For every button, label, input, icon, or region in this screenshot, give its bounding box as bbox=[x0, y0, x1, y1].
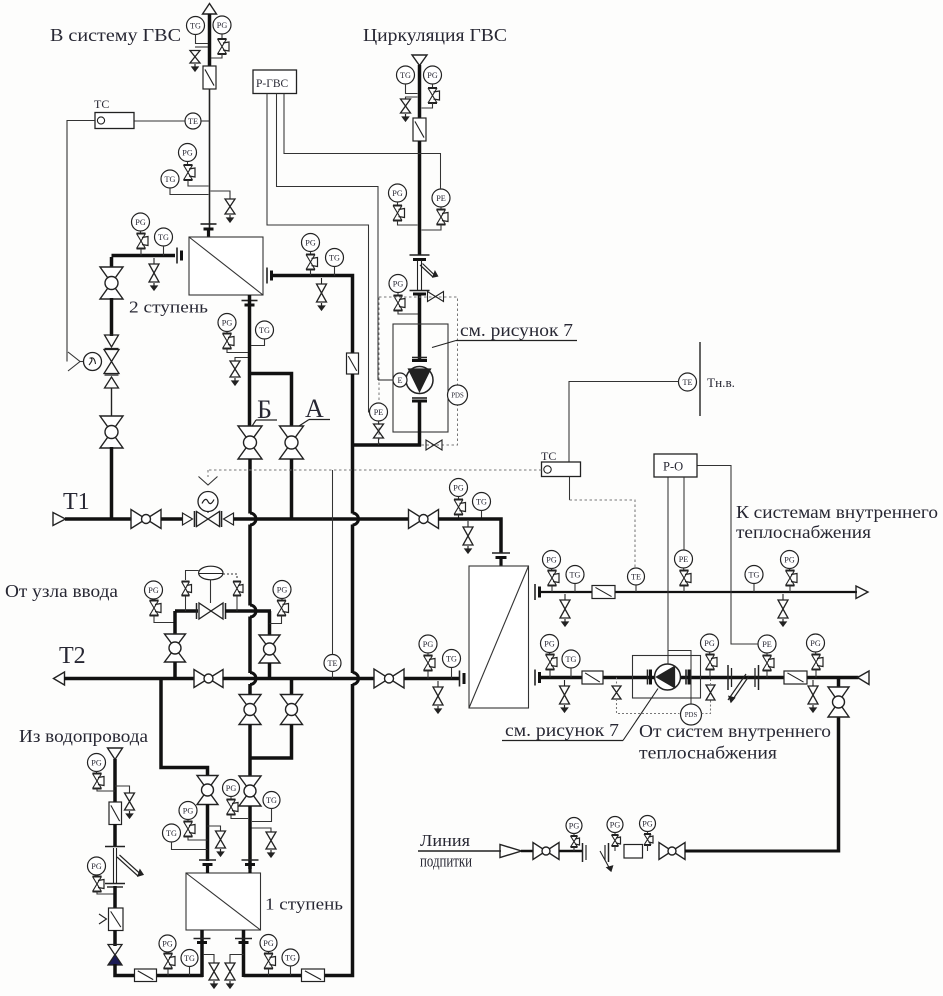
thermometer TG bbox=[155, 228, 173, 246]
heat exchanger U3 bbox=[469, 566, 529, 708]
drain needle valve bbox=[401, 99, 411, 113]
drain branch bbox=[235, 358, 248, 362]
flange of HX2 right port bbox=[267, 268, 272, 284]
wire Р-О to pump bbox=[667, 477, 669, 664]
circulation pump (circle with filled cone) bbox=[406, 367, 433, 394]
wire TC left and down to regulator bbox=[67, 121, 95, 362]
svg-text:1 ступень: 1 ступень bbox=[265, 895, 343, 914]
pressure sensor PE bbox=[432, 189, 450, 207]
pipe: GVS supply riser upper (thick) bbox=[208, 14, 212, 67]
filter on bottom header right bbox=[302, 969, 325, 982]
valve Б bbox=[238, 426, 262, 459]
pressure sensor PE bbox=[758, 635, 776, 653]
wire TE to riser bbox=[201, 120, 210, 122]
svg-text:PG: PG bbox=[91, 758, 102, 767]
wall mark bbox=[699, 342, 701, 416]
pipe T2 to HX3 bbox=[404, 677, 459, 681]
filter on bottom header left bbox=[135, 969, 157, 982]
thermometer TG bbox=[562, 650, 580, 668]
jump of line Б over T1 bbox=[250, 513, 256, 525]
gauge cock bbox=[137, 231, 149, 256]
thermometer TG bbox=[163, 824, 181, 842]
temperature sensor TE on T2 bbox=[324, 655, 341, 672]
filter on return right bbox=[784, 671, 807, 684]
drain needle valve bbox=[190, 51, 200, 64]
svg-text:ТG: ТG bbox=[166, 829, 177, 838]
pressure gauge PG bbox=[88, 857, 106, 875]
svg-text:подпитки: подпитки bbox=[420, 852, 472, 871]
jump of cold riser over T2 bbox=[353, 673, 359, 685]
gauge cock bbox=[706, 652, 718, 678]
gate valve on T2 bbox=[194, 670, 223, 688]
wire Р-ГВС to pump sensor E bbox=[277, 94, 379, 381]
pipe: inlet line bbox=[175, 609, 198, 613]
pump suction flange bbox=[412, 358, 427, 361]
pipe Б continue bbox=[248, 617, 252, 674]
temperature sensor TE on supply bbox=[628, 568, 645, 585]
jump of line Б over inlet line bbox=[250, 605, 256, 617]
pipe: HX1 bottom left port bbox=[200, 930, 204, 977]
flange pair with thermowell on makeup bbox=[583, 843, 613, 871]
svg-text:Т1: Т1 bbox=[63, 489, 90, 515]
pressure gauge PG bbox=[218, 314, 236, 332]
jump of line Б over T2 bbox=[250, 673, 256, 685]
impulse line TG bbox=[189, 967, 191, 976]
arrow makeup inlet bbox=[500, 845, 522, 858]
gauge cock bbox=[223, 332, 249, 353]
pipe to HX1 top right port bbox=[248, 806, 252, 869]
arrow water inlet (open triangle down) bbox=[108, 748, 123, 760]
pressure sensor PE bbox=[675, 550, 693, 568]
wire TE to TC2 bbox=[569, 382, 679, 463]
svg-text:РЕ: РЕ bbox=[374, 408, 384, 417]
impulse line TG bbox=[451, 668, 453, 679]
drain arrow bbox=[218, 849, 224, 856]
svg-text:PG: PG bbox=[182, 148, 193, 157]
valve actuator (circle with ~) bbox=[198, 492, 218, 514]
svg-text:PG: PG bbox=[148, 586, 159, 595]
drain needle valve bbox=[216, 831, 226, 848]
pipe segment (thin) bbox=[111, 388, 113, 418]
svg-text:PG: PG bbox=[784, 555, 795, 564]
gauge cock bbox=[394, 293, 419, 315]
pipe T1 elbow into HX3 bbox=[438, 519, 501, 553]
pump unit solid box bbox=[393, 324, 448, 432]
svg-text:В систему ГВС: В систему ГВС bbox=[50, 25, 181, 45]
flange pair on riser bbox=[410, 291, 430, 295]
arrow outlet to GVS system (open triangle up) bbox=[203, 4, 217, 15]
valve on merged cold line bbox=[239, 776, 261, 806]
svg-text:теплоснабжения: теплоснабжения bbox=[736, 522, 871, 542]
relief branch right bbox=[115, 786, 130, 793]
svg-text:2 ступень: 2 ступень bbox=[129, 298, 208, 317]
drain branch left bbox=[406, 97, 418, 99]
svg-text:От систем внутреннего: От систем внутреннего bbox=[639, 721, 831, 741]
drain needle valve bbox=[225, 199, 235, 214]
svg-text:PG: PG bbox=[162, 939, 173, 948]
flange of HX2 bottom port bbox=[242, 301, 258, 306]
valve on left leg bbox=[165, 634, 186, 662]
pipe into pump unit bbox=[418, 294, 422, 360]
dashed boundary box (см. рисунок 7) bbox=[379, 297, 458, 445]
svg-text:см. рисунок 7: см. рисунок 7 bbox=[505, 720, 619, 740]
temperature sensor TE bbox=[185, 113, 201, 129]
svg-text:теплоснабжения: теплоснабжения bbox=[639, 743, 777, 763]
valve on right leg bbox=[259, 635, 280, 663]
drain branch right bbox=[208, 826, 221, 831]
svg-text:PG: PG bbox=[544, 639, 555, 648]
pressure gauge PG bbox=[701, 634, 719, 652]
svg-text:ТЕ: ТЕ bbox=[631, 572, 641, 581]
pressure gauge PG bbox=[807, 634, 825, 652]
pressure gauge PG bbox=[159, 935, 176, 952]
pipe: heating supply to systems bbox=[540, 591, 858, 593]
gate valve on T1 bbox=[131, 510, 161, 529]
gauge cock bbox=[270, 599, 289, 624]
pressure gauge PG bbox=[640, 816, 656, 832]
drain branch left bbox=[195, 46, 208, 48]
drain on return bbox=[560, 680, 570, 712]
pipe: circulation riser bbox=[418, 65, 422, 118]
pipe bbox=[113, 930, 117, 946]
svg-text:Р-О: Р-О bbox=[663, 460, 683, 474]
dashed damper on boundary bottom bbox=[426, 440, 442, 450]
pressure sensor PE bbox=[370, 403, 388, 421]
thermometer TG bbox=[473, 493, 491, 511]
gauge cock bbox=[306, 252, 318, 276]
drain of left port bbox=[203, 955, 219, 989]
pipe Б below valve bbox=[248, 459, 252, 514]
reducer after control valve bbox=[222, 511, 234, 527]
gauge cock bbox=[644, 832, 653, 852]
wire Р-О to PE3 bbox=[683, 477, 685, 550]
pressure gauge PG bbox=[566, 818, 582, 834]
pipe bbox=[559, 850, 582, 853]
svg-text:см. рисунок 7: см. рисунок 7 bbox=[460, 320, 573, 340]
label Б with underline bbox=[252, 395, 278, 427]
drain arrow bbox=[227, 215, 233, 222]
pressure gauge PG on riser bbox=[179, 144, 197, 162]
drain arrow bbox=[268, 850, 274, 857]
valve on makeup right bbox=[659, 843, 685, 860]
valve on line Б below T2 bbox=[239, 695, 261, 725]
drain arrow bbox=[192, 64, 198, 71]
gauge cock bbox=[150, 599, 176, 623]
flange of HX3 left port bbox=[460, 671, 465, 687]
thermometer TG bbox=[181, 950, 198, 967]
flow control valve with flanges bbox=[197, 603, 226, 619]
impulse left leg with cock bbox=[182, 571, 199, 612]
svg-text:PG: PG bbox=[546, 555, 557, 564]
svg-text:ТЕ: ТЕ bbox=[188, 117, 198, 126]
gauge cock bbox=[680, 568, 692, 592]
impulse line TG bbox=[251, 339, 265, 346]
controller box Р-ГВС bbox=[253, 70, 297, 94]
pipe below pump bbox=[418, 402, 422, 447]
svg-text:ТG: ТG bbox=[570, 570, 581, 579]
network pump (circle with filled cone) bbox=[655, 664, 681, 690]
flange of HX1 top right port bbox=[242, 860, 259, 865]
svg-text:PG: PG bbox=[427, 71, 438, 80]
regulator actuator (circle with wave) bbox=[84, 353, 102, 371]
gauge cock bbox=[546, 653, 558, 678]
pipe: pump line elbow to cold riser bbox=[351, 443, 421, 447]
flange of HX2 top port bbox=[201, 224, 217, 229]
pipe bbox=[173, 662, 177, 679]
dashed impulse to PDS right bbox=[702, 678, 716, 714]
filter on cold riser bbox=[347, 353, 359, 374]
pipe: GVS riser below filter (thin) bbox=[209, 89, 211, 229]
impulse line TG bbox=[574, 584, 576, 593]
svg-text:PG: PG bbox=[610, 820, 621, 829]
pressure gauge PG bbox=[260, 935, 277, 952]
gauge cock bbox=[264, 952, 276, 976]
svg-text:Е: Е bbox=[397, 376, 402, 385]
impulse line TG bbox=[252, 809, 272, 822]
pipe: makeup line thin bbox=[418, 850, 501, 852]
valve on line А below T2 bbox=[281, 695, 303, 725]
label А with underline bbox=[296, 394, 330, 428]
pipe T2 bbox=[64, 677, 195, 681]
pipe T1 bbox=[65, 517, 131, 521]
thermometer TG bbox=[263, 792, 280, 809]
svg-text:PG: PG bbox=[226, 784, 237, 793]
wire Р-ГВС to PE at pump suction bbox=[267, 94, 370, 413]
wire TE up to control line bbox=[332, 470, 334, 655]
svg-text:К системам внутреннего: К системам внутреннего bbox=[736, 502, 938, 522]
drain needle valve bbox=[266, 832, 276, 849]
thermometer TG bbox=[397, 66, 415, 84]
thermometer TG bbox=[745, 566, 763, 584]
pipe stub into HX3 bbox=[499, 556, 502, 566]
flange of HX3 top port bbox=[492, 553, 510, 558]
pipe bbox=[521, 850, 534, 853]
svg-text:PG: PG bbox=[135, 218, 146, 227]
needle valve under PE bbox=[374, 421, 384, 445]
pressure gauge PG bbox=[88, 754, 106, 772]
filter on circulation riser bbox=[413, 118, 426, 141]
svg-text:От узла ввода: От узла ввода bbox=[5, 581, 118, 601]
water meter flange bottom bbox=[105, 884, 125, 888]
pipe: HX2 bottom branch bbox=[248, 295, 252, 427]
filter on water line bbox=[109, 802, 122, 825]
gauge cock bbox=[454, 497, 466, 520]
control line TC2 to T1 valve (dashed) bbox=[208, 470, 542, 477]
drain on supply bbox=[560, 594, 570, 626]
control valve of TC on T1 bbox=[197, 512, 220, 527]
thermometer TG bbox=[282, 949, 299, 966]
pressure gauge PG bbox=[132, 213, 150, 231]
gauge cock under PE bbox=[763, 653, 775, 678]
pipe bbox=[206, 804, 210, 861]
svg-text:PDS: PDS bbox=[685, 712, 698, 719]
flow meter on makeup bbox=[624, 845, 643, 859]
pressure gauge PG bbox=[302, 234, 320, 252]
flange pair on riser bbox=[410, 255, 430, 260]
pipe: HX2 left port line bbox=[112, 254, 176, 258]
pipe: heating return from systems bbox=[540, 676, 859, 680]
svg-text:PG: PG bbox=[704, 639, 715, 648]
pipe segment bbox=[110, 298, 114, 336]
svg-text:Тн.в.: Тн.в. bbox=[707, 375, 735, 390]
thermometer TG bbox=[326, 249, 344, 267]
water meter body bbox=[114, 848, 144, 883]
wire Р-ГВС to PE on riser bbox=[284, 94, 441, 190]
impulse line TG bbox=[290, 966, 292, 976]
svg-text:ТG: ТG bbox=[446, 654, 457, 663]
pressure gauge PG bbox=[781, 551, 799, 569]
pipe А elbow to merge bbox=[250, 725, 292, 759]
flange of HX3 upper right port bbox=[535, 584, 540, 600]
check valve (filled) bbox=[108, 945, 122, 966]
pressure gauge PG bbox=[223, 780, 240, 797]
pipe: HX1 bottom right port bbox=[242, 930, 246, 977]
valve on makeup bbox=[533, 843, 559, 860]
pipe: makeup vertical bbox=[837, 678, 841, 853]
gauge cock bbox=[93, 875, 116, 894]
impulse line TG to riser bbox=[196, 35, 209, 44]
flange of HX2 left port bbox=[177, 248, 182, 264]
flange of HX1 bottom left port bbox=[194, 939, 211, 943]
impulse line TG bbox=[753, 584, 755, 593]
svg-text:ТG: ТG bbox=[329, 253, 340, 262]
sensor E on pump bbox=[393, 373, 407, 387]
svg-text:PG: PG bbox=[277, 585, 288, 594]
pipe: left column elbow down bbox=[110, 257, 114, 268]
pipe: water line bbox=[113, 759, 117, 802]
filter on water line lower bbox=[109, 908, 124, 931]
svg-text:ТG: ТG bbox=[749, 570, 760, 579]
dashed impulse to PDS left bbox=[612, 678, 680, 714]
pipe: water line bbox=[113, 824, 117, 847]
heat exchanger U1 (1 ступень) bbox=[186, 873, 261, 930]
svg-text:РЕ: РЕ bbox=[679, 555, 689, 564]
svg-text:Циркуляция ГВС: Циркуляция ГВС bbox=[363, 25, 507, 45]
thermometer TG bbox=[187, 17, 205, 35]
impulse line TG bbox=[334, 267, 336, 276]
pump suction flange bbox=[648, 670, 651, 685]
pressure diff sensor PDS bbox=[448, 385, 468, 405]
pump discharge flange bbox=[686, 670, 689, 685]
wire TC2 to supply TE (dashed) bbox=[570, 477, 636, 569]
pressure gauge PG bbox=[179, 802, 197, 820]
outdoor sensor TE (Тн.в.) bbox=[679, 373, 697, 391]
gauge cock bbox=[422, 84, 440, 108]
svg-text:ТG: ТG bbox=[266, 796, 277, 805]
pipe Б to merge bbox=[248, 725, 252, 779]
pipe: circulation riser bbox=[418, 141, 422, 255]
svg-text:PG: PG bbox=[393, 279, 404, 288]
pipe: cold riser to bottom bbox=[244, 684, 353, 976]
pipe stub HX1 top right bbox=[248, 864, 251, 873]
svg-text:ТG: ТG bbox=[476, 497, 487, 506]
flange of HX3 lower right port bbox=[535, 670, 540, 686]
arrow return from systems bbox=[858, 671, 870, 685]
arrow T2 outlet bbox=[54, 672, 65, 685]
svg-text:ТС: ТС bbox=[541, 449, 556, 463]
pipe bbox=[268, 663, 272, 679]
pipe: cold riser bbox=[351, 525, 355, 674]
arrow inlet circulation (open triangle down) bbox=[412, 55, 427, 66]
pressure gauge PG bbox=[607, 817, 623, 833]
svg-text:PG: PG bbox=[305, 238, 316, 247]
gauge cock bbox=[227, 797, 249, 819]
label см. рисунок 7 (lower) bbox=[502, 689, 658, 741]
controller box TC2 bbox=[542, 462, 581, 477]
svg-text:PG: PG bbox=[453, 483, 464, 492]
pressure gauge PG bbox=[424, 66, 442, 84]
filter on return bbox=[582, 671, 603, 684]
controller box TC bbox=[95, 113, 134, 129]
svg-text:Из водопровода: Из водопровода bbox=[19, 726, 148, 746]
wire Р-О to PE bbox=[697, 466, 758, 645]
svg-text:ТG: ТG bbox=[158, 233, 169, 242]
drain of right port bbox=[225, 955, 244, 989]
wire branch to PDS bbox=[668, 651, 691, 705]
svg-text:ТG: ТG bbox=[184, 954, 195, 963]
gauge cock bbox=[786, 569, 798, 593]
impulse line TG bbox=[570, 668, 572, 678]
wire TE to TC controller bbox=[134, 120, 185, 122]
gauge cock bbox=[812, 652, 824, 678]
diaphragm actuator (ellipse) bbox=[199, 566, 223, 603]
drain branch bbox=[250, 828, 271, 832]
impulse right leg with cock bbox=[223, 574, 243, 611]
pipe: branch to valve A bbox=[250, 374, 292, 428]
reducer before control valve bbox=[183, 511, 195, 527]
controller box Р-О bbox=[654, 454, 697, 477]
heat exchanger U2 (2 ступень) bbox=[189, 237, 263, 295]
pressure diff sensor PDS bbox=[681, 704, 702, 725]
pressure gauge PG bbox=[389, 275, 407, 293]
valve on cold branch bbox=[197, 776, 218, 805]
pipe А below T2 bbox=[290, 679, 294, 696]
svg-text:ТG: ТG bbox=[566, 655, 577, 664]
svg-text:PG: PG bbox=[222, 318, 233, 327]
flange of HX1 top left port bbox=[199, 860, 216, 865]
pressure gauge PG bbox=[541, 635, 559, 653]
arrow T1 inlet bbox=[53, 513, 66, 526]
pipe: right leg down to T2 bbox=[268, 611, 272, 635]
pressure gauge PG bbox=[213, 16, 231, 34]
pressure gauge PG bbox=[543, 551, 561, 569]
thermometer TG on riser bbox=[161, 170, 179, 188]
svg-text:PG: PG bbox=[392, 189, 403, 198]
pump discharge flange bbox=[412, 398, 427, 401]
valve on left column bbox=[100, 267, 123, 299]
svg-text:ТG: ТG bbox=[285, 953, 296, 962]
svg-text:Р-ГВС: Р-ГВС bbox=[256, 78, 289, 90]
pump unit box bbox=[633, 656, 701, 699]
impulse line TG bbox=[481, 511, 483, 520]
drain on T1 bbox=[463, 521, 473, 553]
drain arrow bbox=[403, 114, 409, 121]
valve on makeup vertical bbox=[828, 687, 849, 717]
arrow supply to systems bbox=[856, 586, 868, 599]
pressure gauge PG bbox=[145, 581, 163, 599]
pressure gauge PG bbox=[273, 581, 291, 599]
pipe down to T1 bbox=[110, 447, 114, 521]
pipe T1 bbox=[161, 517, 183, 521]
pipe: water line elbow to bottom header bbox=[115, 964, 203, 976]
pipe: water line bbox=[113, 886, 117, 909]
dashed damper on boundary top bbox=[428, 292, 444, 302]
svg-text:PG: PG bbox=[569, 821, 580, 830]
gauge cock bbox=[184, 820, 208, 841]
svg-text:РЕ: РЕ bbox=[762, 640, 772, 649]
impulse line TG bbox=[163, 246, 165, 256]
svg-text:А: А bbox=[305, 394, 324, 423]
